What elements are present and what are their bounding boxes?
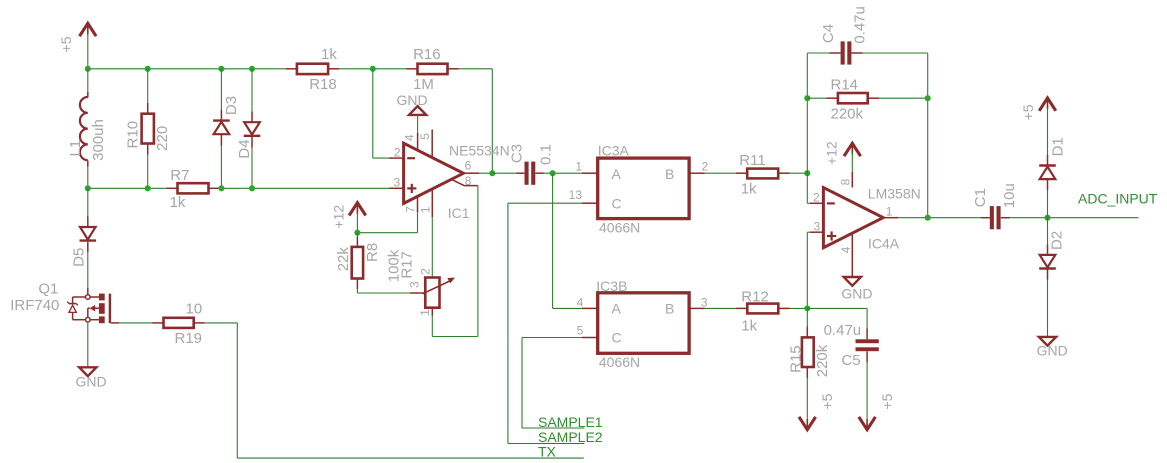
trimpot R17: [385, 249, 455, 307]
junction top rail / D3: [218, 66, 224, 72]
wire right feedback down: [927, 53, 929, 218]
svg-text:4066N: 4066N: [599, 354, 640, 370]
analog switch IC3B: [596, 278, 689, 370]
svg-text:A: A: [612, 301, 622, 317]
wire Q1 source to GND: [87, 322, 89, 367]
pin number 2 IC1: [394, 146, 401, 160]
net label SAMPLE2: [538, 429, 603, 445]
svg-text:R11: R11: [739, 152, 765, 169]
svg-text:1: 1: [575, 160, 582, 174]
svg-text:1k: 1k: [321, 46, 337, 63]
svg-text:D1: D1: [1049, 137, 1066, 156]
wire +5 to D1: [1047, 108, 1049, 165]
wire D4 top: [251, 69, 253, 122]
wire D1 to ADC node: [1047, 180, 1049, 218]
wire R10 bottom: [147, 144, 149, 189]
svg-text:0.1: 0.1: [537, 144, 554, 165]
junction top rail / R10: [145, 66, 151, 72]
svg-text:3: 3: [701, 296, 708, 310]
svg-text:C3: C3: [509, 144, 526, 163]
svg-text:C4: C4: [820, 24, 837, 43]
wire +5 to top rail: [87, 33, 89, 69]
capacitor C3: [509, 144, 555, 185]
svg-text:GND: GND: [841, 286, 872, 302]
wire node to C5: [807, 307, 867, 309]
resistor R19: [164, 301, 203, 348]
svg-text:D3: D3: [223, 96, 240, 115]
svg-text:TX: TX: [538, 444, 557, 460]
svg-text:10: 10: [186, 301, 203, 318]
svg-text:R8: R8: [364, 243, 381, 262]
pin number 2 R17: [418, 268, 432, 275]
svg-text:2: 2: [813, 190, 820, 204]
svg-text:B: B: [665, 166, 674, 182]
svg-text:IC3A: IC3A: [598, 142, 630, 158]
power +5 below R15 (down arrow): [799, 393, 835, 429]
svg-text:220k: 220k: [831, 106, 864, 123]
pin number 5 IC3B: [577, 324, 584, 338]
ground below IC4A: [841, 277, 872, 302]
op-amp IC1: [404, 143, 510, 221]
ground above IC1: [397, 92, 428, 115]
pin number 4 IC1: [403, 134, 417, 141]
svg-text:3: 3: [408, 281, 422, 288]
wire R11 to IC4A node: [778, 172, 807, 174]
wire node down to IC4A pin 2: [807, 173, 823, 203]
svg-text:220: 220: [154, 126, 171, 151]
svg-text:SAMPLE1: SAMPLE1: [538, 414, 603, 430]
pin number 7 IC1: [404, 206, 418, 213]
resistor R8: [335, 243, 381, 279]
svg-text:GND: GND: [397, 92, 428, 108]
junction R12/R15/C5 node: [804, 305, 810, 311]
pin 5 stub IC1: [431, 130, 433, 158]
svg-text:1: 1: [418, 309, 432, 316]
wire R14 left: [807, 97, 838, 99]
wire R15 bottom: [806, 367, 808, 418]
svg-text:+5: +5: [58, 36, 74, 52]
svg-text:10u: 10u: [1001, 183, 1018, 208]
wire IC4A pin 4 to GND: [851, 233, 853, 276]
svg-text:R10: R10: [124, 121, 141, 149]
svg-text:IC1: IC1: [448, 205, 470, 221]
net label ADC_INPUT: [1078, 191, 1158, 207]
pin number 4 IC3B: [577, 296, 584, 310]
pin number 8 IC4A: [839, 178, 853, 185]
wire C3 node down to IC3B pin 4: [553, 173, 598, 308]
svg-text:IRF740: IRF740: [10, 297, 59, 314]
resistor R11: [739, 152, 778, 197]
pin number 5 IC1: [418, 133, 432, 140]
pin 5 stub IC3B: [582, 337, 598, 339]
wire R12 to node: [779, 307, 808, 309]
svg-text:+12: +12: [330, 205, 346, 229]
pin number 4 IC4A: [839, 246, 853, 253]
pin 3 stub IC3B: [689, 307, 704, 309]
capacitor C5: [824, 322, 879, 369]
svg-text:1k: 1k: [741, 318, 757, 335]
junction top rail / L1: [85, 66, 91, 72]
junction C3 / IC3 node: [550, 170, 556, 176]
svg-text:R7: R7: [170, 167, 189, 184]
wire IC1 pin1 down to R17 wiper: [431, 189, 433, 278]
svg-text:D4: D4: [236, 139, 253, 158]
pin number 3 R17: [408, 281, 422, 288]
svg-text:L1: L1: [67, 140, 84, 157]
pin number 6 IC1: [465, 158, 472, 172]
junction bottom rail / L1: [85, 185, 91, 191]
svg-text:C: C: [612, 330, 622, 346]
svg-text:4066N: 4066N: [599, 219, 640, 235]
wire D4 bottom: [251, 137, 253, 189]
svg-text:+5: +5: [879, 393, 895, 409]
wire pin7 to +12 node: [357, 232, 417, 234]
power +5 supply (top left): [58, 23, 96, 52]
svg-text:7: 7: [404, 206, 418, 213]
svg-text:C: C: [612, 196, 622, 212]
wire node up to C4/R14: [806, 53, 808, 173]
svg-text:+5: +5: [819, 393, 835, 409]
analog switch IC3A: [598, 142, 689, 235]
svg-text:SAMPLE2: SAMPLE2: [538, 429, 603, 445]
junction R14 left: [804, 95, 810, 101]
junction IC4A output: [925, 215, 931, 221]
svg-text:1M: 1M: [413, 76, 434, 93]
resistor R7: [170, 167, 209, 211]
wire top rail: [88, 68, 493, 70]
transistor Q1 IRF740: [10, 281, 111, 324]
svg-text:C5: C5: [841, 352, 860, 369]
wire IC3B pin5 to SAMPLE1: [522, 338, 584, 429]
diode D1: [1039, 137, 1066, 179]
svg-text:4: 4: [577, 296, 584, 310]
pin 2 stub IC3A: [689, 172, 704, 174]
junction R11/IC4A pin2 node: [804, 170, 810, 176]
pin number 3 IC3B: [701, 296, 708, 310]
power +5 below C5 (down arrow): [859, 393, 895, 429]
wire IC4A pin3 to R12 node: [807, 232, 823, 308]
capacitor C1: [972, 183, 1018, 229]
pin number 8 IC1: [465, 174, 472, 188]
wire C3 to IC3A pin 1: [536, 172, 598, 174]
svg-text:D5: D5: [70, 248, 87, 267]
svg-text:A: A: [612, 166, 622, 182]
wire D3 top: [220, 69, 222, 121]
svg-text:R18: R18: [309, 76, 337, 93]
svg-text:3: 3: [814, 220, 821, 234]
junction +12/R8 node: [354, 230, 360, 236]
wire R14 right: [868, 97, 928, 99]
svg-text:0.47u: 0.47u: [852, 6, 869, 44]
junction IC1 output: [489, 170, 495, 176]
op-amp IC4A: [823, 185, 920, 251]
svg-text:GND: GND: [1037, 343, 1068, 359]
svg-text:3: 3: [394, 175, 401, 189]
inductor L1: [67, 97, 107, 161]
wire D3 bottom: [220, 135, 222, 189]
svg-text:R15: R15: [787, 345, 804, 373]
svg-text:Q1: Q1: [38, 281, 58, 298]
svg-text:C1: C1: [972, 188, 989, 207]
wire node down to R8: [356, 233, 358, 247]
svg-text:R14: R14: [831, 77, 859, 94]
wire GND to IC1 pin 4: [417, 115, 419, 150]
svg-text:GND: GND: [76, 374, 107, 390]
pin 13 stub IC3A: [582, 202, 598, 204]
pin number 1 IC1: [419, 206, 433, 213]
diode D2: [1039, 231, 1065, 269]
svg-text:2: 2: [394, 146, 401, 160]
svg-text:IC4A: IC4A: [868, 235, 900, 251]
svg-text:1k: 1k: [741, 180, 757, 197]
svg-text:8: 8: [839, 178, 853, 185]
pin number 3 IC4A: [814, 220, 821, 234]
junction ADC node: [1044, 215, 1050, 221]
svg-text:2: 2: [702, 160, 709, 174]
wire L1 stubs: [87, 69, 89, 189]
svg-text:+5: +5: [1020, 104, 1036, 120]
junction bottom rail / D3: [218, 185, 224, 191]
resistor R18: [297, 46, 337, 93]
wire IC1 pin 7 down: [417, 196, 419, 232]
wire IC3A pin2 to R11: [705, 172, 748, 174]
ground below D2: [1037, 337, 1068, 359]
junction R14 right: [925, 95, 931, 101]
wire D2 to GND: [1047, 270, 1049, 337]
svg-text:5: 5: [418, 133, 432, 140]
svg-text:R19: R19: [175, 330, 203, 347]
svg-text:6: 6: [465, 158, 472, 172]
wire bottom rail to IC1 pin 3: [88, 187, 404, 189]
resistor R16: [413, 46, 447, 93]
pin number 1 IC4A: [886, 204, 893, 218]
svg-text:NE5534N: NE5534N: [449, 143, 510, 159]
junction bottom rail / R10: [145, 185, 151, 191]
junction top rail / D4: [249, 66, 255, 72]
wire IC3B pin3 to R12: [705, 307, 748, 309]
capacitor C4: [820, 6, 869, 64]
junction bottom rail / D4: [249, 185, 255, 191]
pin number 1 IC3A: [575, 160, 582, 174]
svg-text:4: 4: [839, 246, 853, 253]
wire R17 pin1 to IC1 pin 8: [432, 186, 478, 337]
resistor R14: [831, 77, 868, 123]
svg-text:22k: 22k: [335, 247, 352, 272]
wire R19 to TX run: [194, 323, 584, 458]
resistor R12: [741, 288, 778, 334]
svg-text:5: 5: [577, 324, 584, 338]
wire R15 top: [806, 308, 808, 337]
wire C4 right: [851, 52, 927, 54]
wire IC1 output to node: [463, 172, 492, 174]
junction R18/R16 feedback node: [370, 66, 376, 72]
svg-text:R12: R12: [741, 288, 769, 305]
pin number 1 R17: [418, 309, 432, 316]
wire R10 top: [147, 69, 149, 114]
diode D4: [236, 122, 261, 158]
pin number 13 IC3A: [569, 188, 583, 202]
wire rail down to IC1 output node: [491, 69, 493, 173]
svg-text:D2: D2: [1049, 231, 1066, 250]
svg-text:1k: 1k: [170, 194, 186, 211]
wire Q1 gate to R19: [111, 322, 163, 324]
power +12 at IC1: [330, 203, 365, 229]
wire C4 left: [807, 52, 840, 54]
svg-text:B: B: [665, 301, 674, 317]
svg-text:2: 2: [418, 268, 432, 275]
wire IC4A output: [883, 217, 990, 219]
pin number 3 IC1: [394, 175, 401, 189]
svg-text:0.47u: 0.47u: [824, 322, 862, 339]
wire IC3A pin13 to SAMPLE2: [508, 203, 585, 443]
resistor R10: [124, 114, 170, 151]
wire R8 to R17 pin 3: [357, 279, 425, 293]
net label SAMPLE1: [538, 414, 603, 430]
svg-text:+12: +12: [823, 141, 839, 165]
wire output node to C3: [492, 172, 524, 174]
resistor R15: [787, 337, 831, 377]
wire ADC node to D2: [1047, 218, 1049, 255]
ground below Q1: [76, 367, 107, 389]
net label TX: [538, 444, 557, 460]
power +5 above D1: [1020, 98, 1056, 120]
svg-text:300uh: 300uh: [90, 119, 107, 161]
svg-text:R16: R16: [413, 46, 441, 63]
svg-text:220k: 220k: [814, 344, 831, 377]
wire D5 to Q1 drain: [87, 242, 89, 295]
svg-text:1: 1: [419, 206, 433, 213]
wire feedback node down to IC1 pin 2: [373, 69, 404, 158]
wire C5 top: [866, 308, 868, 339]
svg-text:R17: R17: [398, 251, 415, 279]
diode D3: [213, 96, 240, 134]
wire C5 bottom: [866, 351, 868, 418]
wire +12 to IC4A pin 8: [851, 152, 853, 188]
wire +12 to node: [356, 212, 358, 233]
power +12 at IC4A: [823, 141, 860, 165]
svg-text:ADC_INPUT: ADC_INPUT: [1078, 191, 1158, 207]
svg-text:13: 13: [569, 188, 583, 202]
pin number 2 IC3A: [702, 160, 709, 174]
pin 8 lead IC1: [452, 179, 478, 185]
wire L1 node down to D5: [87, 188, 89, 227]
pin number 2 IC4A: [813, 190, 820, 204]
svg-text:4: 4: [403, 134, 417, 141]
svg-text:LM358N: LM358N: [868, 185, 921, 201]
svg-text:1: 1: [886, 204, 893, 218]
wire C1 to ADC node: [1001, 217, 1139, 219]
diode D5: [70, 227, 96, 267]
svg-text:IC3B: IC3B: [596, 278, 627, 294]
